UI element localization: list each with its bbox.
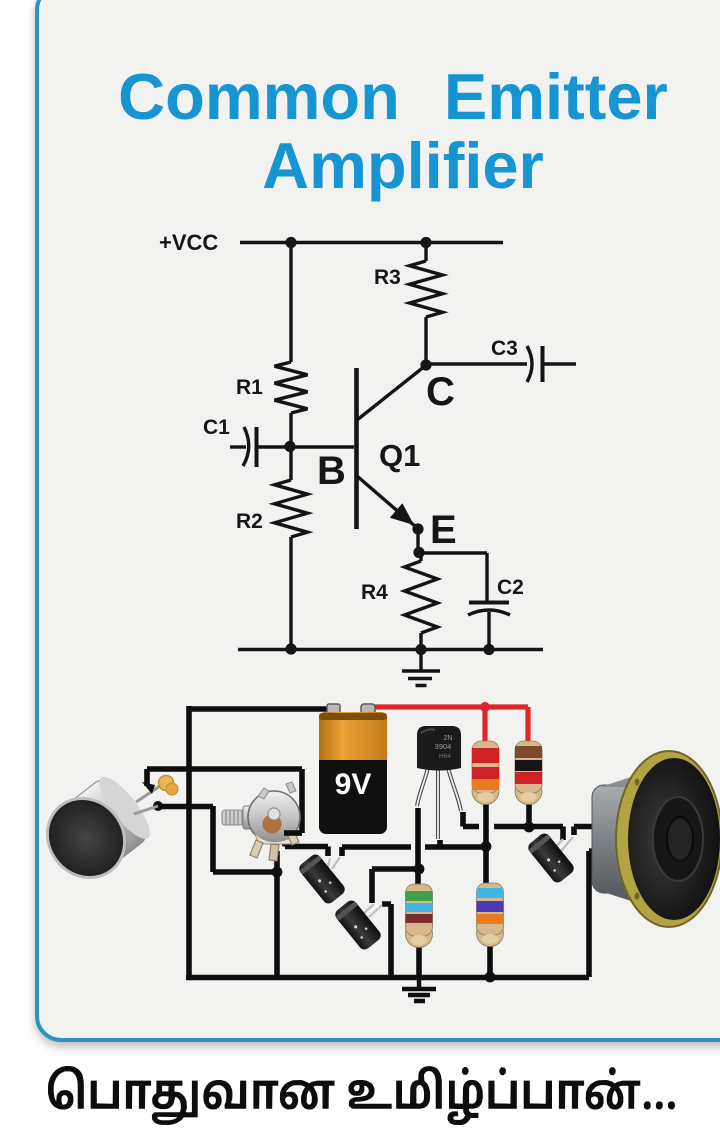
- speaker: [592, 751, 720, 927]
- wire R-470k bottom lead: [487, 940, 493, 977]
- wire collector run to speaker: [463, 812, 599, 840]
- resistor R1: [275, 362, 308, 413]
- wire mic top to pot right lug: [147, 769, 302, 833]
- capacitor electrolytic coupling: [333, 898, 383, 952]
- wire pot wiper to cap1: [285, 841, 328, 856]
- wire R2 bottom lead: [289, 537, 292, 649]
- wire speaker bottom return: [589, 851, 600, 977]
- node collector-R1k junction: [524, 822, 535, 833]
- node base-R22k junction: [481, 841, 492, 852]
- transistor Q1 emitter lead: [357, 476, 416, 527]
- svg-text:+VCC: +VCC: [159, 230, 218, 255]
- wire pot right lug segment: [284, 830, 302, 836]
- resistor R2: [275, 480, 308, 537]
- wire E to C2: [419, 553, 487, 601]
- node collector C: [420, 359, 431, 370]
- capacitor C1 straight plate: [255, 427, 259, 467]
- wire R1 top lead: [289, 242, 292, 362]
- node emitter junction: [414, 864, 425, 875]
- wire R3 bottom lead: [424, 317, 427, 365]
- node VCC-R3: [420, 237, 431, 248]
- svg-text:R2: R2: [236, 510, 263, 533]
- resistor 22k red-red-orange: [472, 741, 499, 805]
- svg-text:C3: C3: [491, 337, 518, 360]
- wire R4 bottom lead: [419, 633, 422, 650]
- node C2-gnd: [483, 644, 494, 655]
- svg-text:E: E: [430, 508, 457, 552]
- microphone terminal blob: [159, 776, 179, 796]
- resistor emitter green-blue-maroon: [406, 884, 433, 948]
- capacitor C1 curved plate: [243, 427, 249, 466]
- svg-text:3904: 3904: [435, 742, 452, 751]
- caption Tamil text: [48, 1066, 675, 1125]
- transistor 2N3904 body: [417, 726, 461, 771]
- wire red battery plus rail: [366, 707, 528, 743]
- svg-text:H64: H64: [439, 753, 451, 760]
- svg-text:Q1: Q1: [379, 438, 420, 473]
- transistor Q1 collector lead: [357, 366, 425, 420]
- wire collector to C3: [431, 362, 527, 365]
- resistor 1k brown-black-red: [515, 741, 542, 805]
- wire bottom ground rail: [186, 975, 589, 981]
- wire R4 top lead: [419, 553, 422, 561]
- transistor Q1 base bar: [354, 368, 359, 529]
- microphone body: [32, 771, 158, 894]
- capacitor electrolytic output: [526, 831, 576, 885]
- wire arrow at mic: [142, 782, 155, 794]
- svg-text:R4: R4: [361, 581, 388, 604]
- wire E node down: [416, 530, 419, 553]
- capacitor C3 curved plate: [527, 346, 532, 382]
- wire R1 bottom lead: [289, 413, 292, 446]
- wire emitter junction to cap2: [372, 869, 419, 903]
- wire battery minus to left rail: [188, 706, 336, 712]
- capacitor C2 top plate: [469, 601, 509, 605]
- svg-text:C: C: [426, 370, 455, 414]
- resistor R4: [405, 561, 438, 633]
- node VCC-R1: [285, 237, 296, 248]
- capacitor C2 curved plate: [468, 610, 510, 615]
- wire left vertical rail: [186, 706, 192, 977]
- ground symbol schematic: [402, 650, 440, 686]
- wire R3 top lead: [424, 243, 427, 261]
- node E-R4: [413, 547, 424, 558]
- node red junction: [480, 702, 490, 712]
- wire cap2 to ground rail: [382, 904, 391, 975]
- node pot-ground junction: [272, 867, 283, 878]
- wire R-22k bottom lead: [483, 799, 489, 885]
- svg-text:B: B: [317, 449, 346, 493]
- wire schematic ground rail: [238, 648, 543, 651]
- battery terminals: [327, 704, 375, 715]
- wire mic top stub: [144, 769, 150, 786]
- microphone leads: [134, 786, 160, 814]
- transistor 2N3904 legs: [417, 768, 461, 839]
- wire C1 to base node: [257, 445, 355, 448]
- svg-text:R3: R3: [374, 266, 401, 289]
- svg-text:C1: C1: [203, 416, 230, 439]
- ground symbol pictorial: [402, 977, 436, 1001]
- wire C3 right lead: [543, 362, 577, 365]
- capacitor C3 straight plate: [541, 346, 545, 382]
- svg-text:9V: 9V: [335, 768, 372, 801]
- node R4-gnd: [415, 644, 426, 655]
- battery 9V: [319, 712, 387, 834]
- wire C2 bottom lead: [487, 612, 490, 650]
- wire emitter resistor to ground: [416, 940, 422, 977]
- potentiometer: [222, 782, 300, 861]
- node base B: [284, 441, 295, 452]
- wire cap1 to base of transistor: [342, 840, 486, 856]
- node emitter E: [412, 523, 423, 534]
- wire R2 top lead: [289, 446, 292, 480]
- node mic bottom lead: [153, 801, 163, 811]
- capacitor electrolytic input: [297, 852, 347, 906]
- wire transistor left leg down to R-emitter: [415, 808, 421, 885]
- svg-text:C2: C2: [497, 576, 524, 599]
- wire mic bottom to pot wiper and ground: [158, 806, 277, 977]
- node R2-gnd: [285, 643, 296, 654]
- wire R-1k bottom lead: [526, 799, 532, 827]
- transistor Q1 emitter arrow: [390, 503, 414, 525]
- resistor R3: [410, 261, 443, 317]
- wire VCC rail: [240, 241, 503, 244]
- resistor 470k blue-violet-orange: [477, 883, 504, 947]
- node R470k-ground: [485, 972, 496, 983]
- svg-text:R1: R1: [236, 376, 263, 399]
- svg-text:2N: 2N: [444, 735, 453, 742]
- capacitor C1 left lead: [230, 445, 246, 448]
